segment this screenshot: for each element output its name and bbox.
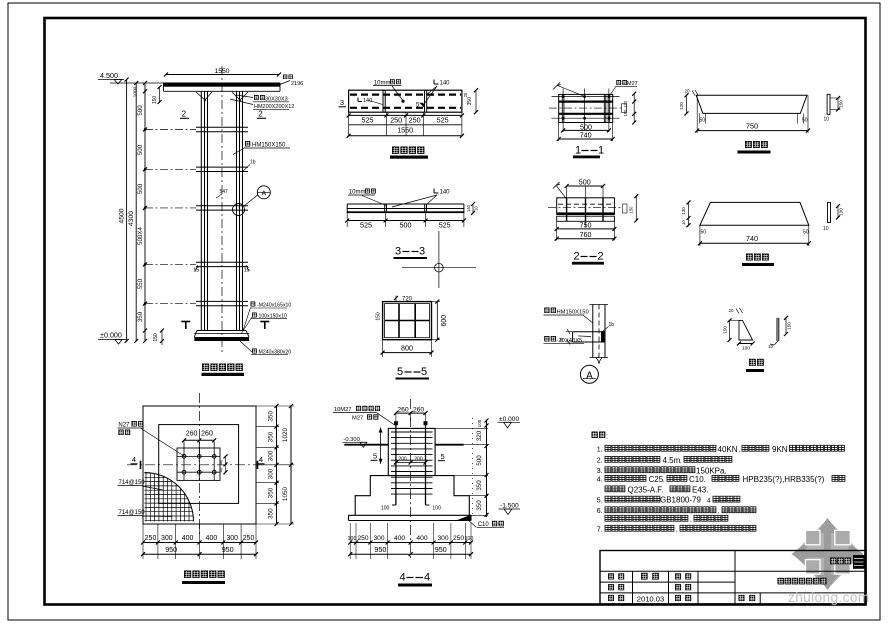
watermark arrows (792, 518, 864, 590)
svg-text:525: 525 (437, 116, 449, 125)
svg-text:350: 350 (137, 311, 144, 322)
svg-text:3: 3 (419, 246, 425, 258)
column elevation: dim 1550 above plate (166, 74, 279, 76)
svg-text:5: 5 (397, 366, 403, 378)
column elevation: top extension line (110, 82, 164, 84)
svg-text:10M27: 10M27 (334, 407, 352, 413)
foundation plan: 40 40 dim right of grid (225, 456, 227, 472)
svg-text:750: 750 (746, 121, 758, 130)
svg-text:3.: 3. (597, 468, 603, 475)
notes line 6b (605, 515, 688, 521)
section 2-2: verticals (566, 198, 568, 222)
svg-text:10: 10 (824, 117, 830, 123)
upper plate: side bar with 150 dim (827, 94, 830, 114)
title block: row1 labels (608, 573, 624, 579)
detail A: label HM150X150 (544, 308, 556, 314)
beam plan: right dim 350 (475, 90, 477, 112)
svg-text:4: 4 (132, 455, 136, 464)
svg-text:100: 100 (465, 536, 474, 542)
svg-text:250: 250 (357, 535, 368, 542)
svg-text:5: 5 (421, 366, 427, 378)
svg-text:5.: 5. (597, 497, 603, 504)
svg-text:100: 100 (742, 346, 750, 352)
section 4-4: bottom dim row 1 (349, 523, 351, 559)
section 2-2: centreline (548, 207, 622, 209)
svg-text:-20X40X5: -20X40X5 (557, 338, 583, 344)
svg-text:100: 100 (348, 536, 357, 542)
svg-text:100: 100 (477, 419, 482, 427)
svg-text:1.: 1. (597, 447, 603, 454)
svg-text:300: 300 (373, 535, 384, 542)
beam plan: dims 525 250 250 525 (348, 112, 350, 136)
svg-text:300: 300 (437, 535, 448, 542)
foundation plan: bolt group rect (177, 448, 220, 480)
section 4-4: dotted extension line (472, 418, 474, 516)
svg-text:150: 150 (153, 333, 159, 342)
svg-text:2.: 2. (597, 458, 603, 465)
notes line 4b (605, 486, 625, 492)
label: column HM150X150 (245, 141, 250, 147)
svg-text:250: 250 (390, 116, 402, 125)
section 3-3: stiffeners (384, 204, 386, 211)
label: PM240x165x10 (251, 302, 256, 307)
rib plate: title label (749, 359, 764, 366)
svg-text:4.500: 4.500 (100, 71, 118, 80)
svg-text:320: 320 (476, 430, 483, 441)
svg-text:A: A (586, 370, 593, 381)
svg-text:260: 260 (186, 431, 198, 438)
upper plate: dim 750 (696, 95, 698, 133)
section 4-4: top dim 260 260 (396, 412, 426, 414)
svg-text:±0.000: ±0.000 (100, 330, 122, 339)
column elevation: base plate (197, 330, 246, 332)
svg-text:140: 140 (466, 204, 471, 212)
beam plan: title label (392, 147, 424, 154)
svg-text:950: 950 (435, 545, 447, 554)
section 2-2: weld flag (553, 182, 560, 189)
svg-text:547: 547 (220, 189, 229, 195)
svg-text:5: 5 (441, 452, 445, 461)
svg-text:150: 150 (839, 100, 844, 108)
beam plan: L140 label above (434, 80, 439, 85)
svg-text:600: 600 (441, 315, 448, 327)
svg-text:4.: 4. (597, 477, 603, 484)
section 2-2: lower slab (557, 216, 615, 221)
svg-text:9KN: 9KN (772, 445, 788, 454)
svg-text:500X4: 500X4 (137, 227, 144, 245)
svg-text:4: 4 (424, 572, 430, 584)
section 2-2: right bracket dims (623, 204, 628, 213)
foundation plan: right dim column 1 (256, 405, 294, 407)
svg-text:1050: 1050 (282, 486, 289, 501)
foundation plan: right dim column 2 (290, 406, 292, 524)
svg-text:1: 1 (598, 145, 604, 157)
svg-text:525: 525 (439, 220, 451, 229)
svg-text:100: 100 (432, 506, 441, 512)
label: angle 30X30X3 (254, 95, 265, 100)
section 4-4: dim 200 200 inside (396, 462, 426, 464)
section 4-4: centreline (410, 399, 412, 560)
svg-text:400: 400 (182, 535, 194, 542)
svg-text:260: 260 (397, 406, 409, 413)
svg-text:100: 100 (381, 506, 390, 512)
svg-text:350: 350 (268, 487, 275, 498)
svg-text:550: 550 (137, 278, 144, 289)
svg-text:150: 150 (623, 109, 628, 117)
section 4-4: ground line (344, 444, 388, 446)
svg-text:10: 10 (681, 220, 686, 225)
svg-text:-1.500: -1.500 (500, 503, 519, 510)
section 2-2: main rect (557, 198, 615, 215)
svg-text:1000: 1000 (133, 86, 139, 97)
svg-text:150: 150 (723, 326, 728, 334)
svg-text:250: 250 (409, 116, 421, 125)
foundation plan: centrelines (127, 464, 272, 466)
foundation plan: dim 260 260 (184, 439, 214, 441)
svg-text:150: 150 (787, 322, 792, 330)
svg-text:2: 2 (598, 251, 604, 263)
svg-text:20: 20 (729, 308, 735, 313)
foundation plan: outer square (143, 406, 256, 524)
foundation plan: title label (184, 571, 225, 578)
svg-text:4: 4 (707, 497, 711, 504)
detail A: left end ticks (566, 331, 573, 333)
beam plan: vertical splice lines (382, 90, 384, 112)
lower plate: title label (746, 254, 769, 261)
lower plate: side bar (828, 202, 831, 222)
svg-text:40KN: 40KN (718, 445, 738, 454)
detail A: column verticals (592, 305, 594, 358)
section 5-5: outer rect (383, 302, 432, 340)
svg-text:7.: 7. (597, 527, 603, 534)
section 1-1: anchor M27 label (616, 80, 627, 85)
column elevation: centre dash-dot line (221, 66, 223, 352)
svg-text:500: 500 (476, 455, 483, 466)
svg-text:E43.: E43. (692, 485, 708, 494)
svg-text:C25: C25 (649, 475, 664, 484)
svg-text:720: 720 (402, 296, 413, 302)
svg-text:350: 350 (476, 480, 483, 491)
section 4-4: base slab (349, 514, 472, 516)
notes: heading (592, 432, 606, 439)
svg-text:525: 525 (362, 116, 374, 125)
section 4-4: step 2 (355, 476, 469, 516)
svg-text:200: 200 (398, 457, 407, 463)
svg-text:4500: 4500 (118, 208, 125, 223)
column elevation: column flange lines (200, 92, 202, 331)
svg-text:130: 130 (839, 208, 844, 216)
section 4-4: pedestal (388, 428, 435, 475)
title block: outer rect (600, 551, 866, 605)
svg-text::: : (606, 434, 608, 441)
svg-text:260: 260 (201, 431, 213, 438)
svg-text:400: 400 (206, 535, 218, 542)
section 1-1: right dim (633, 94, 635, 123)
section 1-1: thick chords (559, 100, 613, 102)
detail A: horizontal member (573, 331, 605, 333)
svg-text:HPB235(?),HRB335(?): HPB235(?),HRB335(?) (743, 475, 825, 484)
title block: horizontal lines (600, 570, 866, 572)
svg-text:750: 750 (580, 221, 592, 230)
section 2-2: bottom dims (556, 221, 558, 240)
svg-text:500: 500 (579, 178, 591, 187)
section 2-2: thick bottom chord (557, 212, 615, 214)
svg-text:525: 525 (360, 220, 372, 229)
svg-text:2: 2 (182, 110, 187, 119)
svg-text:800: 800 (401, 343, 413, 352)
title block: row3 labels (608, 595, 624, 601)
svg-text:1b: 1b (609, 322, 615, 328)
svg-text:zhulong.com: zhulong.com (788, 590, 870, 605)
section 4-4: anchor bolts (395, 423, 397, 505)
rib plate: triangle (739, 320, 753, 340)
svg-text:Q235-A.F.: Q235-A.F. (628, 485, 664, 494)
svg-text:250: 250 (145, 535, 157, 542)
svg-text:140: 140 (440, 190, 451, 196)
svg-text:20: 20 (463, 92, 468, 97)
svg-text:C10.: C10. (689, 475, 706, 484)
locator crosshair below 3-3 (438, 231, 440, 288)
detail A: label plate 20X40X5 (544, 336, 556, 342)
foundation plan: bolt grid lines (177, 455, 220, 457)
svg-text:10: 10 (474, 206, 479, 211)
svg-text:1b: 1b (250, 160, 256, 166)
section 1-1: dim 740 (558, 123, 560, 142)
svg-text:350: 350 (268, 411, 275, 422)
extension dashes from stiffeners to dim chain (145, 129, 196, 131)
svg-text:2: 2 (258, 110, 263, 119)
rib plate: side bar (776, 318, 778, 341)
title block: drawing title (778, 578, 827, 585)
section 4-4: cut line 5 left (380, 428, 382, 464)
svg-text:300: 300 (268, 468, 275, 479)
svg-text:1550: 1550 (397, 125, 413, 134)
svg-text:1: 1 (575, 145, 581, 157)
section 1-1: vertical lines (561, 94, 563, 122)
svg-text:500: 500 (137, 183, 144, 194)
svg-text:4: 4 (259, 455, 263, 464)
title block: vertical lines (632, 571, 634, 604)
rib plate: bottom 100 dim (739, 343, 753, 345)
column elevation: stiffener bands (196, 126, 248, 128)
lower plate: dim 740 (699, 225, 701, 246)
rib plate: left 150 dim (729, 320, 731, 340)
title block: small black seal (853, 555, 865, 569)
svg-text:250: 250 (243, 535, 255, 542)
svg-text:50: 50 (701, 230, 707, 236)
svg-text:130: 130 (681, 207, 686, 215)
svg-text:40: 40 (219, 467, 224, 472)
column elevation: top plate (164, 83, 281, 87)
section 1-1: outer rect (559, 94, 613, 122)
svg-text:-M240x165x10: -M240x165x10 (257, 303, 291, 309)
beam plan: dim 1550 (349, 124, 462, 126)
svg-text:4: 4 (400, 572, 406, 584)
section 4-4: bottom dim row 2 (350, 553, 471, 555)
svg-text:50: 50 (700, 118, 706, 124)
section 5-5: right dim 600 (436, 302, 438, 340)
svg-text:740: 740 (580, 131, 592, 140)
svg-text:120: 120 (679, 102, 684, 110)
svg-text:950: 950 (222, 545, 234, 554)
title: column side view label (202, 364, 243, 371)
svg-text:4.5m: 4.5m (663, 456, 681, 465)
label: 100x150x10 (252, 313, 257, 318)
svg-text:500: 500 (400, 220, 412, 229)
svg-text:150: 150 (629, 206, 634, 214)
left dim chains of elevation (126, 80, 128, 342)
foundation plan: bottom dim row 1 (142, 524, 144, 559)
svg-text:150: 150 (152, 96, 158, 105)
svg-text:950: 950 (165, 545, 177, 554)
beam plan: internal L140 label (358, 98, 362, 102)
svg-text:140: 140 (440, 81, 451, 87)
svg-text:260: 260 (413, 406, 425, 413)
section 1-1: bolts (562, 95, 565, 98)
section 1-1: weld flag top-left (553, 83, 561, 90)
beam plan: centre bolt dot (401, 100, 404, 103)
svg-text:20: 20 (685, 89, 691, 94)
section 5-5: internal grid (398, 304, 400, 338)
svg-text:3: 3 (340, 98, 344, 107)
svg-text:HM150X150: HM150X150 (557, 310, 589, 316)
svg-text:50: 50 (802, 118, 808, 124)
svg-text:760: 760 (580, 230, 592, 239)
upper plate: trapezoid (696, 95, 807, 113)
column elevation: bracket details under plate (196, 92, 248, 101)
svg-text:740: 740 (746, 234, 758, 243)
beam plan: dashed chord bands (350, 93, 461, 95)
lower plate: trapezoid (700, 202, 809, 225)
svg-text:2196: 2196 (291, 81, 303, 87)
svg-text:1020: 1020 (282, 427, 289, 442)
svg-text:300: 300 (268, 450, 275, 461)
svg-text:500: 500 (137, 144, 144, 155)
svg-text:714@150: 714@150 (119, 510, 146, 516)
label: M240x380x20 (252, 349, 257, 354)
svg-text:2: 2 (574, 251, 580, 263)
column elevation: top-right plate label 2196 (283, 75, 293, 80)
svg-text:950: 950 (374, 545, 386, 554)
svg-text:400: 400 (416, 535, 428, 542)
svg-text:350: 350 (268, 508, 275, 519)
svg-text:120: 120 (623, 100, 628, 108)
section 3-3: dims 525 500 525 (346, 213, 348, 227)
svg-text:GB1800-79: GB1800-79 (660, 496, 701, 505)
svg-text:50: 50 (803, 230, 809, 236)
section 1-1: dim 500 (563, 129, 609, 131)
svg-text:714@150: 714@150 (119, 480, 146, 486)
svg-text:N27: N27 (118, 423, 130, 429)
svg-text:5: 5 (373, 452, 377, 461)
svg-text:200: 200 (414, 457, 423, 463)
section 3-3: beam plates (347, 203, 464, 205)
section 5-5: bottom dim 800 (382, 340, 384, 357)
svg-text:400: 400 (394, 535, 406, 542)
svg-text:250: 250 (453, 535, 464, 542)
svg-text:2010.03: 2010.03 (637, 595, 664, 604)
section 2-2: dashes inside (558, 203, 613, 205)
detail bubble A with leader (257, 186, 270, 199)
title block: shigongtu stamp (830, 558, 851, 565)
svg-text:40: 40 (219, 459, 224, 464)
foundation plan: bolt circles (182, 455, 186, 459)
zhulong watermark logo diamond (793, 519, 862, 589)
section 2-2: top dim 500 (567, 185, 603, 187)
section 1-1: centreline (549, 107, 622, 109)
svg-text:300: 300 (226, 535, 238, 542)
section 4-4: ties inside pedestal (391, 431, 433, 433)
svg-text:350: 350 (476, 500, 483, 511)
svg-text:4300: 4300 (128, 211, 135, 226)
svg-text:150: 150 (376, 312, 382, 321)
svg-text:10: 10 (823, 226, 829, 232)
section 4-4: right elevation dim chain (486, 420, 488, 518)
svg-text:HM150X150: HM150X150 (252, 143, 286, 149)
section 4-4: black wedge C10 (456, 515, 471, 521)
svg-text:M27: M27 (352, 416, 363, 422)
title block: row2 labels (608, 584, 624, 590)
section 3-3: right dims (472, 204, 474, 213)
column elevation: weld T symbols (181, 321, 190, 323)
svg-text:3: 3 (395, 246, 401, 258)
section 3-3: L140 label (434, 189, 439, 194)
svg-text:6.: 6. (597, 508, 603, 515)
lower plate: left dims (688, 202, 690, 225)
svg-text:A: A (261, 190, 266, 197)
detail A: circle A (580, 365, 598, 383)
svg-text:10: 10 (768, 344, 774, 349)
watermark squares (806, 530, 821, 545)
foundation plan: bottom dim row 2 (143, 553, 256, 555)
section 1-1: bolt rows extending lines (552, 96, 620, 98)
upper plate: title label (745, 141, 768, 148)
svg-text:500: 500 (137, 105, 144, 116)
svg-text:350: 350 (268, 431, 275, 442)
svg-text:300: 300 (161, 535, 173, 542)
svg-text:-0.300: -0.300 (343, 437, 359, 443)
foundation plan: inner square (159, 425, 239, 504)
beam plan: outer rectangle (349, 90, 462, 112)
